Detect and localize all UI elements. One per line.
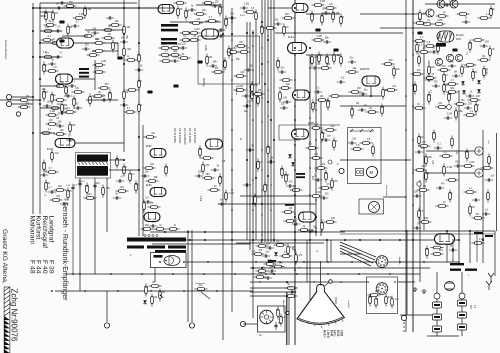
svg-text:2,2M: 2,2M bbox=[284, 175, 289, 177]
svg-text:EM84: EM84 bbox=[308, 122, 315, 125]
svg-text:1M: 1M bbox=[219, 7, 222, 9]
svg-text:F 48: F 48 bbox=[28, 260, 35, 274]
svg-text:2,2M: 2,2M bbox=[199, 196, 201, 201]
svg-text:2,2M: 2,2M bbox=[244, 3, 249, 5]
svg-text:EC92: EC92 bbox=[47, 148, 54, 151]
svg-text:Bildfang: Bildfang bbox=[202, 78, 204, 87]
svg-text:2,2M: 2,2M bbox=[50, 111, 55, 113]
svg-text:L 253: L 253 bbox=[340, 330, 343, 337]
svg-text:1M: 1M bbox=[269, 266, 272, 268]
svg-text:Netzschalter: Netzschalter bbox=[385, 185, 388, 197]
svg-text:1 Fm 8: 1 Fm 8 bbox=[326, 330, 329, 338]
svg-text:2,2M: 2,2M bbox=[42, 92, 47, 94]
svg-text:ca 15kV: ca 15kV bbox=[347, 300, 349, 308]
svg-text:ECC81: ECC81 bbox=[456, 34, 464, 37]
svg-text:2,2M: 2,2M bbox=[469, 162, 474, 164]
svg-text:1M: 1M bbox=[186, 11, 189, 13]
svg-text:1M: 1M bbox=[154, 297, 157, 299]
svg-text:1M: 1M bbox=[121, 37, 124, 39]
svg-text:EF80: EF80 bbox=[146, 146, 152, 148]
svg-text:220: 220 bbox=[198, 171, 203, 173]
svg-text:220: 220 bbox=[327, 101, 332, 103]
svg-text:2,2M: 2,2M bbox=[320, 1, 325, 3]
svg-text:EF80: EF80 bbox=[146, 185, 152, 187]
svg-text:0,25: 0,25 bbox=[431, 160, 433, 165]
svg-text:EF85: EF85 bbox=[204, 45, 207, 51]
svg-text:100: 100 bbox=[240, 72, 245, 74]
svg-text:1M: 1M bbox=[417, 223, 420, 225]
svg-text:2,2M: 2,2M bbox=[464, 67, 469, 69]
svg-text:150: 150 bbox=[145, 225, 150, 227]
svg-text:Rat: Rat bbox=[244, 110, 248, 113]
svg-text:2,2M: 2,2M bbox=[176, 44, 181, 46]
svg-text:10n: 10n bbox=[161, 44, 166, 46]
svg-text:2,2M: 2,2M bbox=[86, 9, 91, 11]
svg-text:Bildrohr: Bildrohr bbox=[398, 257, 401, 265]
svg-text:2,2M: 2,2M bbox=[229, 193, 234, 195]
svg-text:1M: 1M bbox=[327, 64, 330, 66]
svg-text:RöV: RöV bbox=[95, 39, 100, 41]
svg-text:1M: 1M bbox=[108, 34, 111, 36]
svg-text:2,2M: 2,2M bbox=[101, 61, 106, 63]
svg-text:Ablenkeinheit: Ablenkeinheit bbox=[282, 300, 285, 313]
svg-text:1M: 1M bbox=[289, 208, 292, 210]
svg-text:10n: 10n bbox=[427, 95, 432, 97]
svg-text:220: 220 bbox=[247, 101, 252, 103]
svg-text:Graetz KG Altena,: Graetz KG Altena, bbox=[1, 229, 8, 284]
svg-text:Fernseh - Rundfunk-Empfänger: Fernseh - Rundfunk-Empfänger bbox=[61, 202, 68, 301]
svg-text:Bv 237: Bv 237 bbox=[323, 330, 326, 338]
svg-text:1M: 1M bbox=[258, 90, 261, 92]
svg-text:Rö VII EM84: Rö VII EM84 bbox=[173, 128, 177, 143]
svg-text:1M: 1M bbox=[423, 186, 426, 188]
svg-text:Tonblende: Tonblende bbox=[195, 283, 206, 285]
svg-text:2,2M: 2,2M bbox=[447, 167, 452, 169]
svg-text:10n: 10n bbox=[257, 197, 262, 199]
svg-text:Maharani: Maharani bbox=[28, 216, 35, 245]
svg-text:10n: 10n bbox=[471, 207, 476, 209]
svg-text:30-12: 30-12 bbox=[336, 330, 339, 337]
svg-text:220: 220 bbox=[420, 147, 425, 149]
svg-text:2,2M: 2,2M bbox=[437, 20, 442, 22]
svg-text:Antennenbuchsen: Antennenbuchsen bbox=[4, 40, 7, 60]
svg-text:1M: 1M bbox=[162, 292, 165, 294]
svg-text:1M: 1M bbox=[320, 96, 323, 98]
svg-text:2,2M: 2,2M bbox=[194, 29, 199, 31]
svg-text:2,2M: 2,2M bbox=[449, 0, 454, 2]
svg-text:100: 100 bbox=[448, 94, 453, 96]
svg-text:1M: 1M bbox=[256, 97, 259, 99]
svg-text:RöIX: RöIX bbox=[456, 39, 462, 41]
svg-text:8-30: 8-30 bbox=[240, 15, 245, 17]
svg-text:100: 100 bbox=[450, 61, 455, 63]
svg-text:10n: 10n bbox=[438, 103, 443, 105]
svg-text:Zchg Nr:90076: Zchg Nr:90076 bbox=[9, 289, 18, 342]
svg-text:Rö V EABC80: Rö V EABC80 bbox=[183, 128, 187, 145]
svg-text:1M: 1M bbox=[454, 71, 457, 73]
svg-text:2,2M: 2,2M bbox=[268, 273, 273, 275]
svg-text:10n: 10n bbox=[444, 85, 449, 87]
svg-text:12-41: 12-41 bbox=[329, 330, 332, 337]
svg-text:2,2M: 2,2M bbox=[317, 36, 322, 38]
svg-text:Rö III ECH81: Rö III ECH81 bbox=[193, 128, 197, 144]
svg-text:1M: 1M bbox=[356, 103, 359, 105]
svg-text:EABC80: EABC80 bbox=[360, 68, 370, 71]
svg-text:EL84: EL84 bbox=[288, 36, 294, 39]
svg-text:100: 100 bbox=[196, 19, 201, 21]
svg-text:1M: 1M bbox=[422, 142, 425, 144]
svg-text:Rö VII EM84: Rö VII EM84 bbox=[188, 128, 192, 143]
svg-text:1M: 1M bbox=[225, 19, 228, 21]
svg-text:M: M bbox=[370, 170, 374, 175]
svg-text:100: 100 bbox=[425, 249, 430, 251]
svg-text:Helligkeit: Helligkeit bbox=[235, 86, 238, 95]
svg-text:2,2M: 2,2M bbox=[238, 86, 243, 88]
svg-text:Rö III ECH81: Rö III ECH81 bbox=[178, 128, 182, 144]
svg-text:2,2M: 2,2M bbox=[447, 113, 452, 115]
svg-text:Bv 23: Bv 23 bbox=[333, 330, 336, 337]
svg-text:1M: 1M bbox=[482, 56, 485, 58]
svg-text:1M: 1M bbox=[325, 57, 328, 59]
svg-text:100: 100 bbox=[468, 103, 473, 105]
svg-text:1M: 1M bbox=[270, 157, 273, 159]
svg-text:OA70: OA70 bbox=[485, 70, 488, 76]
